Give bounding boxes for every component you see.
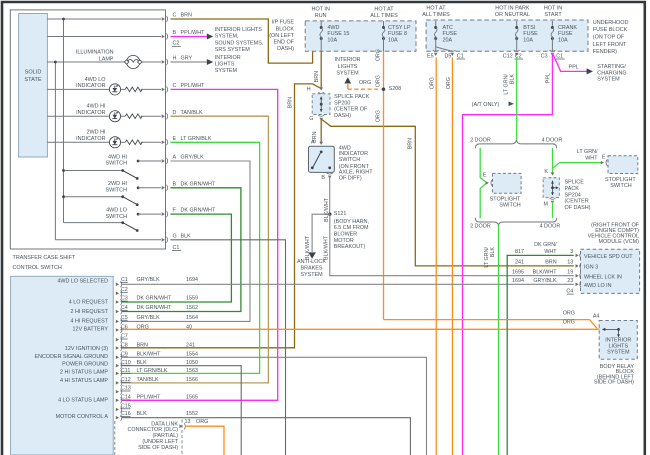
wire ORG CTSY fuse down page	[383, 51, 385, 319]
svg-text:PPL/WHT: PPL/WHT	[181, 83, 206, 89]
svg-text:4 LO REQUEST: 4 LO REQUEST	[69, 300, 109, 306]
wire row G ground return	[55, 239, 161, 241]
svg-text:(ON LEFT: (ON LEFT	[269, 33, 294, 39]
4WD HI indicator wire	[47, 115, 110, 117]
svg-text:SWITCH: SWITCH	[339, 157, 361, 163]
svg-text:STOPLIGHT: STOPLIGHT	[490, 196, 521, 202]
svg-text:E: E	[173, 136, 177, 142]
svg-text:F: F	[173, 208, 177, 214]
TCCM connector dashed line	[114, 421, 116, 455]
svg-text:TAN/BLK: TAN/BLK	[181, 110, 203, 116]
svg-text:BLK/WHT: BLK/WHT	[137, 351, 162, 357]
VCM pin 3 VEHICLE SPD OUT	[576, 254, 579, 258]
wire DK GRN/WHT pin B to TCCM C4	[122, 188, 241, 312]
wire BLK/WHT 1554 TCCM C9 down off page	[122, 357, 427, 455]
internal bus to lamp/ground	[54, 62, 56, 240]
pin H GRY of switch connector	[162, 60, 165, 64]
wire BLK 1050 TCCM C10 down off page	[122, 366, 241, 455]
svg-text:SIDE OF DASH): SIDE OF DASH)	[594, 379, 634, 385]
svg-text:A4: A4	[593, 314, 600, 320]
svg-text:TAN/BLK: TAN/BLK	[137, 377, 159, 383]
4WD LO indicator wire	[47, 88, 110, 90]
wire BLK pin G down off page	[171, 240, 286, 455]
wire ORG ATC D5 down off page	[451, 58, 453, 455]
svg-text:WHEEL LCK IN: WHEEL LCK IN	[584, 274, 622, 280]
wire ORG CTSY branch to body relay block A4	[384, 320, 598, 329]
TCCM pin C2	[116, 292, 119, 296]
wire row C (instrument feed)	[47, 18, 161, 20]
svg-text:4 DOOR: 4 DOOR	[542, 138, 563, 144]
svg-text:CRANK: CRANK	[558, 25, 577, 31]
svg-text:BRN: BRN	[288, 97, 294, 108]
svg-text:SRS SYSTEM: SRS SYSTEM	[215, 47, 251, 53]
svg-text:BLK: BLK	[510, 74, 516, 85]
wire GRY pin H to interior lights system	[171, 61, 207, 63]
svg-text:1564: 1564	[186, 315, 198, 321]
svg-text:MODULE (VCM): MODULE (VCM)	[599, 239, 640, 245]
svg-text:GRY/BLK: GRY/BLK	[533, 278, 557, 284]
svg-text:SIDE OF DASH): SIDE OF DASH)	[138, 445, 178, 451]
svg-text:(ON TOP OF: (ON TOP OF	[593, 35, 625, 41]
wire ORG 40 TCCM C6 to body relay block A4	[122, 328, 600, 330]
svg-text:1559: 1559	[186, 296, 198, 302]
svg-text:FUSE 8: FUSE 8	[388, 31, 407, 37]
svg-text:1566: 1566	[186, 377, 198, 383]
TCCM pin C16 BLK 1552	[116, 416, 119, 420]
stoplight switch (2 door)	[491, 180, 492, 187]
svg-text:BREAKOUT): BREAKOUT)	[334, 244, 366, 250]
svg-text:241: 241	[186, 342, 195, 348]
svg-text:B: B	[173, 181, 177, 187]
TCCM pin C1 GRY/BLK 1694	[116, 283, 119, 287]
svg-text:OF DIFF): OF DIFF)	[339, 175, 362, 181]
svg-text:ORG: ORG	[376, 49, 382, 61]
DLC pin 13	[179, 424, 182, 428]
wire ORG dashed branch to interior lights system	[348, 88, 382, 90]
4WD LO SWITCH	[64, 222, 123, 224]
svg-text:BLK: BLK	[181, 233, 192, 239]
TCCM pin C12 TAN/BLK 1566	[116, 381, 119, 385]
pin C PPL/WHT of switch connector	[162, 88, 165, 92]
TCCM pin C11 LT GRN/BLK 1563	[116, 372, 119, 376]
svg-text:LEFT FRONT: LEFT FRONT	[593, 42, 627, 48]
splice S208	[382, 88, 385, 91]
TCCM pin C8 BRN 241	[116, 346, 119, 350]
svg-text:G: G	[309, 116, 313, 122]
svg-text:SWITCH: SWITCH	[106, 188, 128, 194]
brace 2 door / 4 door upper	[475, 140, 556, 148]
svg-text:BLK/WHT: BLK/WHT	[323, 235, 329, 260]
wire BLK/WHT S121 to VCM wheel lck in	[330, 214, 574, 276]
svg-text:ALL TIMES: ALL TIMES	[422, 12, 450, 18]
svg-text:ALL TIMES: ALL TIMES	[370, 13, 398, 19]
TCCM pin C13	[116, 390, 119, 394]
svg-text:4WD HI: 4WD HI	[86, 104, 106, 110]
svg-text:DK GRN/WHT: DK GRN/WHT	[137, 305, 172, 311]
svg-text:SP204: SP204	[565, 192, 581, 198]
svg-text:DK GRN/WHT: DK GRN/WHT	[181, 208, 216, 214]
TCCM pin C4 DK GRN/WHT 1562	[116, 310, 119, 314]
svg-text:13: 13	[567, 260, 573, 266]
svg-text:GRY/BLK: GRY/BLK	[181, 155, 205, 161]
svg-text:SYSTEM: SYSTEM	[336, 70, 359, 76]
svg-text:PPL/WHT: PPL/WHT	[137, 395, 162, 401]
svg-text:SWITCH: SWITCH	[499, 203, 521, 209]
fuse 4WD FUSE 15 10A	[320, 21, 322, 28]
svg-text:CTSY LP: CTSY LP	[388, 25, 411, 31]
svg-text:ORG: ORG	[563, 311, 575, 317]
svg-text:B: B	[173, 30, 177, 36]
svg-text:SPLICE: SPLICE	[565, 180, 585, 186]
svg-text:POWER GROUND: POWER GROUND	[62, 362, 108, 368]
svg-text:BLOWER: BLOWER	[334, 232, 357, 238]
svg-text:SP200: SP200	[334, 100, 350, 106]
svg-text:BRAKES: BRAKES	[300, 266, 322, 272]
svg-text:19: 19	[567, 269, 573, 275]
svg-text:SYSTEM: SYSTEM	[607, 349, 630, 355]
internal bus to switch commons	[63, 19, 65, 223]
svg-text:C4: C4	[566, 288, 573, 294]
wire row B	[47, 36, 161, 38]
svg-text:LT GRN/: LT GRN/	[577, 149, 598, 155]
svg-text:6.5 CM FROM: 6.5 CM FROM	[334, 225, 369, 231]
svg-text:BRN: BRN	[545, 260, 556, 266]
svg-text:BRN: BRN	[137, 342, 148, 348]
svg-text:DASH): DASH)	[277, 46, 294, 52]
svg-text:SYSTEM: SYSTEM	[300, 272, 323, 278]
svg-text:C2: C2	[173, 41, 180, 47]
svg-text:ILLUMINATION: ILLUMINATION	[76, 50, 114, 56]
svg-text:BLK: BLK	[490, 247, 496, 258]
svg-text:ATC: ATC	[443, 25, 454, 31]
svg-text:4WD LO: 4WD LO	[106, 207, 127, 213]
wire ORG ATC E5 down off page	[435, 58, 437, 455]
TCCM pin C5 GRY/BLK 1564	[116, 320, 119, 324]
svg-text:1050: 1050	[186, 360, 198, 366]
svg-text:4WD LO: 4WD LO	[85, 77, 106, 83]
VCM pin 13 IGN 3	[576, 264, 579, 268]
svg-text:GRY: GRY	[181, 56, 193, 62]
svg-text:4WD LO SELECTED: 4WD LO SELECTED	[57, 279, 108, 285]
pin F DK GRN/WHT of switch connector	[162, 212, 165, 216]
svg-text:ENCODER SIGNAL GROUND: ENCODER SIGNAL GROUND	[35, 354, 109, 360]
svg-text:13: 13	[185, 419, 191, 425]
svg-text:FUSE: FUSE	[558, 31, 573, 37]
svg-text:SWITCH: SWITCH	[610, 183, 632, 189]
svg-text:LAMP: LAMP	[99, 56, 114, 62]
svg-text:INDICATOR: INDICATOR	[76, 136, 105, 142]
svg-text:1562: 1562	[186, 305, 198, 311]
TCCM pin C3 DK GRN/WHT 1559	[116, 300, 119, 304]
svg-text:SOUND SYSTEMS,: SOUND SYSTEMS,	[215, 40, 264, 46]
svg-text:BLOCK: BLOCK	[276, 26, 295, 32]
fuse CRANK FUSE 10A	[551, 21, 553, 28]
2WD HI indicator LED	[109, 137, 120, 148]
wire GRY/BLK pin A to TCCM C5	[122, 161, 250, 321]
svg-text:E: E	[483, 173, 487, 179]
pin B of 4WD indicator switch	[327, 173, 333, 174]
wire GRY/BLK 1694 TCCM C1 to VCM 4WD LO IN	[122, 283, 574, 285]
svg-text:BRN: BRN	[314, 71, 320, 82]
svg-text:A: A	[311, 140, 315, 146]
svg-text:12V IGNITION (3): 12V IGNITION (3)	[65, 346, 108, 352]
svg-text:2 HI STATUS LAMP: 2 HI STATUS LAMP	[60, 369, 108, 375]
svg-text:4 HI REQUEST: 4 HI REQUEST	[71, 318, 109, 324]
svg-text:ORG: ORG	[196, 419, 208, 425]
4WD LO indicator resistor	[125, 87, 142, 92]
svg-text:BRN: BRN	[181, 13, 192, 19]
svg-text:(A/T ONLY): (A/T ONLY)	[472, 102, 500, 108]
svg-text:BLK/WHT: BLK/WHT	[305, 235, 311, 260]
arrow anti-lock brakes system	[308, 252, 316, 258]
svg-text:(BODY HARN,: (BODY HARN,	[334, 219, 370, 225]
svg-text:S208: S208	[389, 86, 402, 92]
pin B PPL/WHT of switch connector	[162, 35, 165, 39]
svg-text:ORG: ORG	[446, 77, 452, 89]
svg-text:BTSI: BTSI	[523, 25, 536, 31]
svg-text:BRN: BRN	[408, 138, 414, 149]
svg-text:10A: 10A	[523, 37, 533, 43]
svg-text:PPL: PPL	[545, 73, 551, 83]
splice pack SP204	[551, 172, 555, 175]
svg-text:OR NEUTRAL: OR NEUTRAL	[495, 12, 530, 18]
svg-text:IGN 3: IGN 3	[584, 265, 598, 271]
interior lights system splice inside body relay block	[602, 328, 618, 330]
svg-text:4 DOOR: 4 DOOR	[540, 224, 561, 230]
wire LT GRN/BLK 4 door branch to SP204 pin K	[552, 148, 554, 175]
svg-text:D: D	[173, 110, 177, 116]
svg-text:20A: 20A	[443, 37, 453, 43]
svg-text:WHT: WHT	[544, 249, 557, 255]
svg-text:H: H	[173, 56, 177, 62]
svg-text:2WD HI: 2WD HI	[108, 181, 128, 187]
svg-text:BLK: BLK	[137, 360, 148, 366]
svg-text:3: 3	[570, 249, 573, 255]
wire LT GRN/BLK merged down off page	[498, 225, 500, 455]
solid state module	[19, 14, 48, 158]
wire PPL crank fuse A/T only run down-left-down off page	[463, 53, 553, 455]
svg-text:HOT IN: HOT IN	[544, 6, 562, 12]
svg-text:C12: C12	[503, 53, 513, 59]
svg-text:1552: 1552	[186, 411, 198, 417]
pin C3/C1 of CRANK fuse	[549, 50, 555, 51]
VCM pin 23 4WD LO IN	[576, 283, 579, 287]
data link connector DLC	[181, 420, 183, 455]
TCCM pin C14 PPL/WHT 1565	[116, 399, 119, 403]
wire BRN pin C to 4WD fuse	[171, 19, 313, 63]
svg-text:4WD LO IN: 4WD LO IN	[584, 283, 612, 289]
2WD HI SWITCH	[64, 196, 123, 198]
svg-text:C: C	[173, 13, 177, 19]
svg-text:241: 241	[515, 260, 524, 266]
svg-text:FUSE 15: FUSE 15	[327, 31, 349, 37]
svg-text:1563: 1563	[186, 368, 198, 374]
svg-text:DASH): DASH)	[334, 113, 351, 119]
svg-text:MOTOR: MOTOR	[334, 238, 354, 244]
pin D TAN/BLK of switch connector	[162, 114, 165, 118]
svg-text:2WD HI: 2WD HI	[86, 130, 106, 136]
wire PPL crank fuse branch to starting/charging	[552, 53, 586, 71]
wire PPL/WHT pin B to interior lights systems	[171, 36, 207, 38]
svg-text:C1: C1	[457, 53, 464, 59]
fuse BTSI FUSE 10A	[516, 21, 518, 28]
svg-text:STOPLIGHT: STOPLIGHT	[605, 177, 636, 183]
2WD HI indicator wire	[47, 141, 110, 143]
svg-text:HOT AT: HOT AT	[374, 7, 394, 13]
svg-text:INTERIOR: INTERIOR	[335, 57, 361, 63]
TCCM pin C7	[116, 338, 119, 342]
svg-text:SWITCH: SWITCH	[106, 214, 128, 220]
svg-text:1694: 1694	[186, 277, 198, 283]
svg-text:1695: 1695	[512, 269, 524, 275]
wire BRN SP200 G to 4WD indicator switch pin A	[320, 119, 322, 144]
svg-text:(CENTER OF: (CENTER OF	[334, 107, 368, 113]
svg-text:GRY/BLK: GRY/BLK	[137, 315, 161, 321]
svg-text:PPL: PPL	[569, 64, 579, 70]
svg-text:FENDER): FENDER)	[593, 49, 617, 55]
VCM pin 19 WHEEL LCK IN	[576, 274, 579, 278]
wire BRN branch from G to VCM IGN 3	[321, 119, 574, 266]
svg-text:4 LO STATUS LAMP: 4 LO STATUS LAMP	[58, 397, 108, 403]
svg-text:START: START	[544, 12, 562, 18]
pin A GRY/BLK of switch connector	[162, 159, 165, 163]
svg-text:FUSE BLOCK: FUSE BLOCK	[593, 27, 628, 33]
svg-text:1694: 1694	[512, 278, 524, 284]
svg-text:(CENTER: (CENTER	[565, 199, 589, 205]
svg-text:PACK: PACK	[565, 186, 580, 192]
wire DK GRN/WHT 817 from off page to VCM vehicle spd out	[507, 255, 574, 455]
ATC fuse output fork to pins E5 and D5	[436, 47, 453, 52]
svg-text:H: H	[307, 87, 311, 93]
svg-text:LT GRN/: LT GRN/	[484, 247, 490, 268]
svg-text:B: B	[321, 175, 325, 181]
svg-text:DK GRN/: DK GRN/	[534, 242, 557, 248]
svg-text:SWITCH: SWITCH	[106, 161, 128, 167]
svg-text:C3: C3	[541, 53, 548, 59]
svg-text:LT GRN/BLK: LT GRN/BLK	[181, 136, 212, 142]
arrow interior lights system	[207, 59, 213, 65]
svg-text:SPLICE PACK: SPLICE PACK	[334, 94, 370, 100]
transfer case shift control module	[11, 276, 114, 455]
svg-text:12V BATTERY: 12V BATTERY	[73, 326, 109, 332]
svg-text:I/P FUSE: I/P FUSE	[271, 20, 294, 26]
svg-text:K: K	[544, 169, 548, 175]
arrow interior lights/sound/srs systems	[207, 34, 213, 40]
svg-text:TRANSFER CASE SHIFT: TRANSFER CASE SHIFT	[13, 255, 77, 261]
svg-text:M: M	[544, 201, 549, 207]
wire BRN branch at H node going left/down to TCCM C8	[122, 84, 321, 348]
4WD HI indicator LED	[109, 111, 120, 122]
svg-text:ORG: ORG	[376, 110, 382, 122]
svg-text:817: 817	[515, 249, 524, 255]
svg-text:ORG: ORG	[359, 80, 371, 86]
svg-text:GRY/BLK: GRY/BLK	[137, 277, 161, 283]
I/P fuse block	[305, 21, 416, 51]
svg-text:C1: C1	[556, 53, 563, 59]
TCCM pin C6 ORG 40	[116, 328, 119, 332]
svg-text:ANTI-LOCK: ANTI-LOCK	[297, 259, 326, 265]
svg-text:2 DOOR: 2 DOOR	[470, 138, 491, 144]
svg-text:DK GRN/WHT: DK GRN/WHT	[181, 181, 216, 187]
wire row H illumination lamp feed	[47, 61, 126, 63]
wire LT GRN/BLK pin E to TCCM C11	[122, 142, 260, 373]
wire BLK 1552 TCCM C16 down off page	[122, 418, 410, 455]
svg-text:4WD HI: 4WD HI	[108, 154, 128, 160]
svg-text:C: C	[173, 83, 177, 89]
underhood fuse block	[426, 20, 588, 51]
svg-text:10A: 10A	[558, 37, 568, 43]
svg-text:S121: S121	[334, 211, 347, 217]
svg-text:VEHICLE SPD OUT: VEHICLE SPD OUT	[584, 254, 633, 260]
arrow starting/charging system	[587, 68, 593, 74]
fuse ATC FUSE 20A	[435, 21, 437, 28]
wire DK GRN/WHT pin F to TCCM C3	[122, 214, 231, 302]
svg-text:BLK/WHT: BLK/WHT	[324, 197, 330, 222]
svg-text:SYSTEM: SYSTEM	[597, 77, 620, 83]
svg-text:STATE: STATE	[24, 77, 41, 83]
2WD HI indicator resistor	[125, 140, 142, 145]
TCCM pin C9 BLK/WHT 1554	[116, 356, 119, 360]
splice S121	[328, 213, 331, 216]
transfer case shift control switch S1 outer box	[10, 10, 165, 249]
splice pack SP200	[319, 87, 323, 90]
wire ORG DLC pin 13 down off page	[185, 426, 224, 455]
arrow interior lights system (S208)	[347, 84, 349, 89]
svg-text:1554: 1554	[186, 351, 198, 357]
svg-text:INDICATOR: INDICATOR	[76, 110, 105, 116]
fuse CTSY LP FUSE 8 10A	[383, 21, 385, 28]
svg-text:4WD: 4WD	[327, 25, 339, 31]
pin C BRN of switch connector	[162, 17, 165, 21]
brace 2 door / 4 door lower	[475, 218, 556, 226]
pin C12/C2 of BTSI fuse	[514, 50, 520, 51]
svg-text:CHARGING: CHARGING	[597, 70, 626, 76]
4WD HI SWITCH	[64, 170, 123, 172]
svg-text:C2: C2	[515, 53, 522, 59]
svg-text:RUN: RUN	[315, 13, 327, 19]
wire LT GRN/WHT branch to stoplight switch (4 door)	[553, 163, 602, 169]
svg-text:ORG: ORG	[430, 77, 436, 89]
4WD indicator switch	[319, 142, 323, 145]
svg-text:HOT IN: HOT IN	[312, 7, 330, 13]
svg-text:LT GRN/: LT GRN/	[503, 74, 509, 95]
TCCM pin C15	[116, 408, 119, 412]
svg-text:ORG: ORG	[563, 319, 575, 325]
svg-text:HOT IN PARK: HOT IN PARK	[495, 6, 530, 12]
4WD HI indicator resistor	[125, 114, 142, 119]
svg-text:10A: 10A	[327, 37, 337, 43]
svg-text:23: 23	[567, 278, 573, 284]
svg-text:G: G	[173, 233, 177, 239]
svg-text:FUSE: FUSE	[443, 31, 458, 37]
pin E LT GRN/BLK of switch connector	[162, 141, 165, 145]
svg-text:INTERIOR LIGHTS: INTERIOR LIGHTS	[215, 27, 263, 33]
wire BLK/WHT branch to anti-lock brakes	[312, 214, 330, 252]
4WD LO indicator LED	[109, 84, 120, 95]
svg-text:ORG: ORG	[376, 75, 382, 87]
svg-text:A: A	[173, 155, 177, 161]
svg-text:LIGHTS: LIGHTS	[338, 64, 358, 70]
wire LT GRN/BLK SP204 M down to lower brace	[552, 201, 554, 218]
wire BLK/WHT switch B to S121	[329, 177, 331, 215]
svg-text:HOT AT: HOT AT	[426, 6, 446, 12]
svg-text:UNDERHOOD: UNDERHOOD	[593, 20, 629, 26]
svg-text:WHT: WHT	[585, 155, 598, 161]
svg-text:4 HI STATUS LAMP: 4 HI STATUS LAMP	[60, 378, 108, 384]
stoplight switch (4 door)	[606, 159, 607, 166]
wire LT GRN/BLK BTSI fuse down to 2door/4door brace	[516, 58, 518, 142]
svg-text:1565: 1565	[186, 395, 198, 401]
